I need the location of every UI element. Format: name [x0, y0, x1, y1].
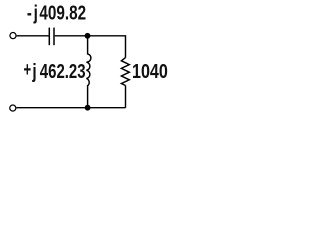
svg-text:j: j [32, 60, 37, 83]
wire terminal T1 to capacitor [17, 35, 49, 37]
svg-text:1040: 1040 [132, 59, 168, 82]
wire resistor bottom to bottom rail [125, 86, 127, 108]
wire capacitor to node A and corner down to resistor [55, 36, 126, 58]
terminal T2 bottom-left [10, 105, 16, 111]
svg-text:462.23: 462.23 [40, 60, 86, 83]
wire bottom rail [16, 107, 125, 109]
resistor R1 zigzag [121, 58, 129, 86]
label -j 409.82 (capacitor reactance) [27, 1, 86, 24]
terminal T1 top-left [10, 33, 16, 39]
svg-text:409.82: 409.82 [39, 1, 86, 24]
svg-text:+: + [23, 58, 31, 81]
circuit schematic: series capacitor feeding parallel inductor/resistor [0, 0, 172, 122]
svg-text:-: - [27, 1, 32, 24]
capacitor C1 plates [49, 28, 54, 46]
label +j 462.23 (inductor reactance) [23, 58, 85, 82]
svg-text:j: j [33, 1, 38, 24]
junction node A [85, 33, 91, 39]
junction node B [85, 105, 91, 111]
inductor L1 [86, 36, 91, 108]
